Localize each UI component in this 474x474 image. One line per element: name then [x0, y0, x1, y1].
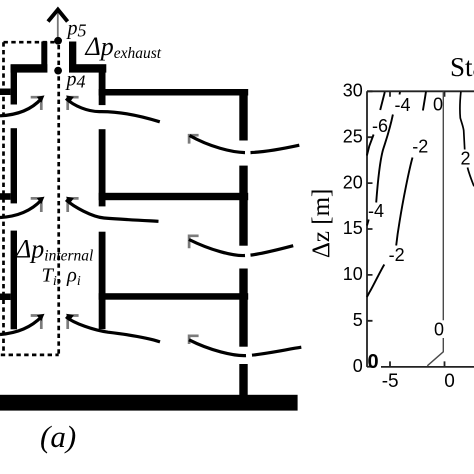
plot left spine — [366, 91, 368, 367]
floor3 atrium opening marker left — [31, 314, 43, 329]
floor3 window inflow arrow curve — [189, 340, 301, 356]
svg-text:Δz [m]: Δz [m] — [308, 189, 335, 259]
contour 2 — [460, 92, 474, 187]
floor2 room window chevron — [188, 235, 199, 249]
floor3 atrium opening marker right — [66, 314, 78, 329]
svg-text:0: 0 — [367, 351, 378, 373]
svg-text:0: 0 — [353, 356, 363, 376]
atrium roof left piece — [11, 64, 48, 72]
chimney left wall — [41, 42, 47, 73]
left floor slab 2 — [0, 193, 11, 200]
exhaust arrow shaft — [57, 13, 59, 39]
left floor slab 3 — [0, 294, 11, 301]
chimney right wall — [69, 42, 76, 73]
left floor slab 1 — [0, 89, 11, 96]
dashed control volume top edge — [4, 41, 55, 44]
floor2 atrium opening marker left — [31, 197, 43, 212]
svg-text:-2: -2 — [389, 245, 405, 265]
right wall segment 1 — [239, 89, 247, 141]
svg-text:-2: -2 — [412, 137, 428, 157]
central wall segment mid floor — [99, 129, 106, 206]
svg-text:10: 10 — [343, 264, 363, 284]
left wall segment lower floor — [11, 231, 17, 330]
left wall segment top floor — [11, 65, 17, 105]
node p4 dot — [54, 67, 62, 75]
svg-text:-6: -6 — [372, 116, 388, 136]
svg-text:Δpexhaust: Δpexhaust — [85, 32, 162, 62]
floor2 atrium opening marker right — [66, 197, 78, 212]
floor1 window inflow arrow curve — [190, 136, 300, 153]
floor1 room window chevron — [188, 134, 199, 144]
svg-text:(a): (a) — [40, 419, 76, 454]
floor3 right arrowhead — [66, 314, 74, 321]
svg-text:25: 25 — [343, 126, 363, 146]
central wall segment lower floor — [99, 232, 106, 330]
svg-text:Δpinternal: Δpinternal — [15, 235, 93, 265]
svg-text:20: 20 — [343, 172, 363, 192]
floor2 window inflow arrow curve — [189, 240, 293, 256]
plot bottom spine — [381, 366, 474, 368]
floor1 right arrowhead — [66, 95, 74, 102]
svg-text:p5: p5 — [66, 18, 87, 41]
dashed stack centerline — [57, 45, 60, 355]
svg-text:Ti, ρi: Ti, ρi — [42, 265, 81, 290]
right wall segment 3 — [239, 269, 247, 347]
exhaust arrow head — [48, 10, 68, 22]
svg-text:15: 15 — [343, 218, 363, 238]
contour -4 — [367, 92, 400, 226]
svg-text:-4: -4 — [368, 201, 384, 221]
ground slab — [0, 395, 298, 411]
x axis ticks top — [390, 91, 445, 97]
dashed control volume left edge — [2, 42, 5, 355]
plot top spine — [367, 90, 474, 92]
x axis ticks bottom — [390, 361, 445, 367]
floor2 right arrowhead — [66, 197, 74, 204]
floor1 room-to-atrium arrow curve — [66, 99, 160, 122]
right wall segment 2 — [239, 166, 247, 246]
floor1 left inflow arrow curve — [0, 99, 42, 116]
central wall segment top floor — [99, 66, 106, 106]
floor3 room window chevron — [188, 335, 199, 345]
svg-text:p4: p4 — [65, 69, 86, 92]
floor2 room-to-atrium arrow curve — [66, 200, 159, 222]
floor2 left arrowhead — [37, 197, 45, 204]
atrium roof right piece — [69, 64, 106, 72]
floor1 left arrowhead — [37, 95, 45, 102]
right room ceiling slab 1 — [99, 89, 249, 96]
svg-text:0: 0 — [433, 95, 443, 115]
floor1 atrium opening marker left — [31, 96, 43, 110]
floor3 left arrowhead — [37, 314, 45, 321]
contour -2 — [367, 92, 426, 298]
contour 0 vertical — [427, 92, 443, 366]
y axis ticks — [367, 91, 373, 366]
floor2 left inflow arrow curve — [0, 200, 42, 218]
floor3 left inflow arrow curve — [0, 317, 42, 335]
svg-text:5: 5 — [353, 310, 363, 330]
svg-text:-5: -5 — [382, 371, 399, 392]
dashed control volume bottom edge — [1, 354, 59, 357]
left wall segment mid floor — [11, 128, 17, 203]
contour -6 — [367, 92, 385, 156]
svg-text:-4: -4 — [394, 95, 410, 115]
svg-text:2: 2 — [460, 149, 470, 169]
node p5 dot — [54, 37, 62, 45]
right room ceiling slab 3 — [99, 293, 249, 300]
floor3 room-to-atrium arrow curve — [66, 317, 160, 342]
svg-text:30: 30 — [343, 81, 363, 101]
floor1 atrium opening marker right — [66, 96, 78, 110]
right wall segment 4 — [239, 364, 247, 395]
svg-text:0: 0 — [434, 320, 444, 340]
svg-text:0: 0 — [444, 371, 455, 392]
svg-text:Stack: Stack — [450, 52, 474, 82]
right room ceiling slab 2 — [99, 193, 249, 200]
